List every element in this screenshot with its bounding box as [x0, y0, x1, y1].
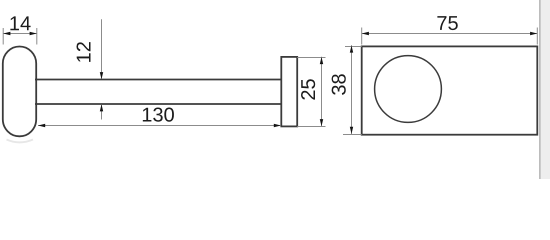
dimension 25: value label (rotated) — [301, 79, 315, 99]
wall-mount capsule body (left view) — [3, 47, 36, 137]
dimension 25: up arrowhead — [320, 57, 323, 64]
dimension 75: left extension line — [361, 28, 363, 45]
end cap plate (left view) — [281, 57, 297, 127]
dimension 25: down arrowhead — [320, 119, 323, 126]
dimension 75: right arrowhead — [530, 32, 537, 35]
dimension 12: down arrowhead — [100, 72, 103, 79]
dimension 38: value label (rotated) — [332, 74, 346, 95]
dimension 14: value label — [10, 16, 30, 30]
dimension 14: left arrowhead — [3, 32, 10, 35]
page panel gray sidebar — [541, 0, 550, 179]
capsule bottom soft shadow — [7, 140, 34, 143]
dimension 75: value label — [437, 16, 457, 30]
dimension 130: right arrowhead — [274, 124, 281, 127]
dimension 75: dimension line — [362, 33, 538, 35]
roller circle (right view) — [375, 56, 442, 123]
dimension 12: up arrowhead — [100, 104, 103, 111]
dimension 14: left extension line — [2, 28, 4, 45]
dimension 38: down arrowhead — [350, 127, 353, 134]
dimension 130: value label — [143, 108, 174, 122]
dimension 25: dimension line — [321, 57, 323, 127]
dimension 38: up arrowhead — [350, 45, 353, 52]
dimension 130: dimension line — [38, 125, 281, 127]
dimension 12: value label (rotated) — [77, 42, 91, 62]
page panel divider line (right edge) — [539, 0, 541, 179]
dimension 38: top extension line — [345, 46, 362, 48]
dimension 14: dimension line — [3, 33, 37, 35]
dimension 25: top extension line — [297, 57, 325, 59]
dimension 14: right extension line — [36, 28, 38, 45]
dimension 14: right arrowhead — [30, 32, 37, 35]
dimension 38: dimension line — [351, 45, 353, 134]
dimension 75: right extension line — [536, 28, 538, 45]
dimension 12: upper leader line — [101, 19, 103, 79]
dimension 25: bottom extension line — [297, 126, 325, 128]
mounting block rectangle (right view) — [362, 46, 538, 134]
dimension 130: left arrowhead — [38, 124, 45, 127]
dimension 75: left arrowhead — [362, 32, 369, 35]
roller bar bottom edge — [35, 103, 282, 105]
dimension 12: lower leader line — [101, 105, 103, 120]
dimension 38: bottom extension line — [343, 134, 362, 136]
roller bar top edge — [35, 79, 282, 81]
